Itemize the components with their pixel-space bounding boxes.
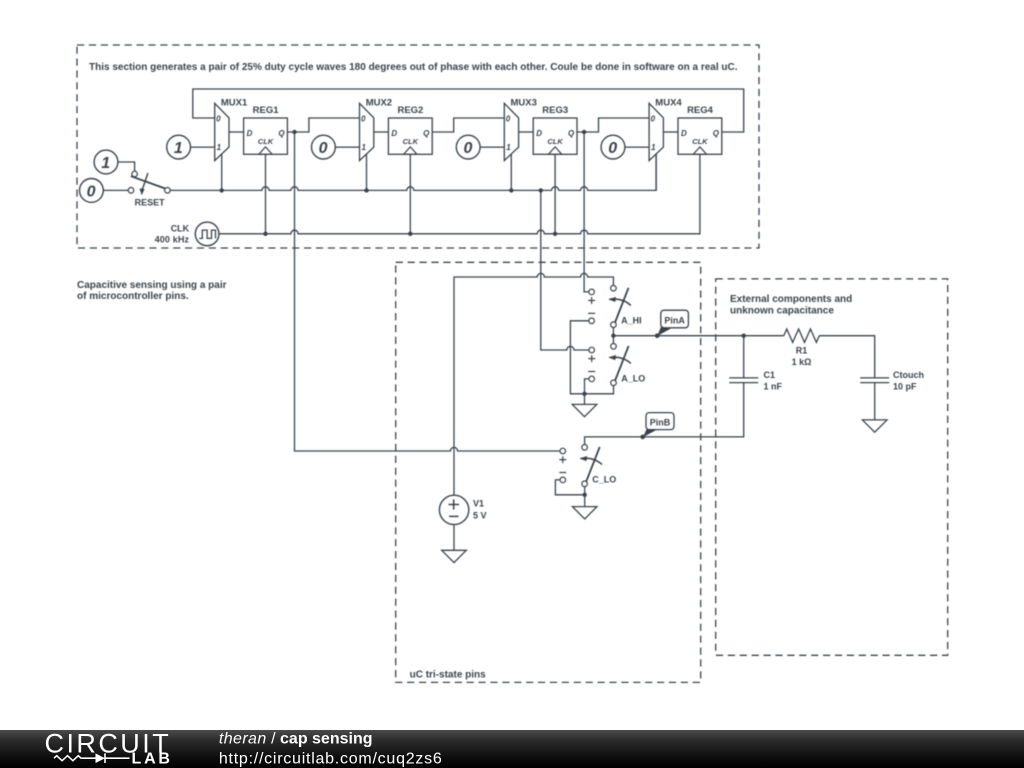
- node PinA junction: [611, 334, 615, 338]
- switch C_LO: [559, 445, 616, 487]
- node constant 1 input circle: [167, 135, 191, 159]
- wire R1 to Ctouch: [819, 336, 874, 378]
- logo resistor zigzag: [54, 756, 96, 761]
- junction A ground node: [582, 392, 586, 396]
- junction on clock line: [408, 232, 412, 236]
- wire C1 bottom / PinB line to C_LO throw: [585, 383, 744, 445]
- ground (V1): [442, 550, 467, 562]
- wire REG3 clock stub: [554, 154, 556, 234]
- wire REG2 Q to MUX3 input 0: [432, 118, 504, 132]
- switch RESET: [128, 171, 170, 207]
- wire feedback REG4 Q to MUX1 input 0: [193, 89, 744, 132]
- wire REG1 Q to MUX2 input 0: [287, 118, 359, 132]
- section box: uC tri-state pins: [396, 262, 701, 682]
- node constant 0 circle (reset side): [80, 179, 104, 203]
- wire input circle to MUX4: [625, 146, 649, 148]
- switch A_LO: [588, 344, 645, 386]
- ground (Ctouch): [862, 420, 887, 432]
- wire C_LO - control to common ground node: [555, 480, 584, 495]
- wire MUX3 select to reset line: [510, 154, 512, 190]
- flag PinA: [655, 310, 688, 338]
- node constant 1 circle (reset side): [94, 150, 118, 174]
- mux MUX4: [649, 97, 682, 160]
- junction PinA flag: [655, 334, 659, 338]
- wire REG1 Q down to C_LO + control: [295, 132, 561, 451]
- wire V1 - to ground: [453, 525, 455, 551]
- section box: waveform generator: [77, 45, 759, 248]
- section box: external components: [716, 279, 948, 655]
- mux MUX1: [215, 97, 248, 160]
- capacitor Ctouch 10 pF: [860, 370, 924, 392]
- svg-text:theran / cap sensing: theran / cap sensing: [219, 731, 373, 748]
- junction on clock line: [263, 232, 267, 236]
- wire MUX4 out to REG4 D: [663, 131, 678, 133]
- wire 1-circle to RESET throw: [118, 162, 135, 171]
- flip-flop REG1: [244, 105, 288, 154]
- svg-text:http://circuitlab.com/cuq2zs6: http://circuitlab.com/cuq2zs6: [219, 751, 443, 768]
- mux MUX3: [504, 97, 537, 160]
- clock source CLK 400 kHz: [155, 222, 219, 246]
- wire clock line: [219, 154, 700, 234]
- resistor R1 1 kOhm: [784, 329, 820, 367]
- capacitor C1 1 nF: [729, 336, 782, 392]
- flip-flop REG2: [388, 105, 432, 154]
- wire MUX1 out to REG1 D: [229, 131, 244, 133]
- switch A_HI: [588, 285, 642, 327]
- junction on reset line: [220, 188, 224, 192]
- wire REG1 clock stub: [265, 154, 267, 234]
- junction on reset line: [509, 188, 513, 192]
- node REG3 Q junction: [582, 130, 586, 134]
- junction on clock line: [553, 232, 557, 236]
- ground (A switches): [572, 394, 597, 417]
- wire A_LO - control to ground node: [585, 379, 590, 394]
- wire A_HI - control to A_LO common / ground node: [570, 321, 613, 394]
- wire MUX2 select to reset line: [366, 154, 368, 190]
- junction on reset line: [364, 188, 368, 192]
- wire input circle to MUX2: [335, 146, 359, 148]
- node C1 top junction: [742, 334, 746, 338]
- junction on reset line: [539, 188, 543, 192]
- svg-text:LAB: LAB: [132, 751, 173, 768]
- wire A_HI common to A_LO throw: [612, 327, 614, 343]
- voltage source V1 5 V: [439, 495, 486, 524]
- junction C ground node: [583, 493, 587, 497]
- ground (C_LO): [572, 495, 597, 519]
- node constant 0 input circle: [601, 135, 625, 159]
- wire 0-circle to RESET throw: [103, 189, 128, 191]
- wire reset line: [170, 154, 656, 190]
- wire REG3 Q to MUX4 input 0: [577, 118, 649, 132]
- wire MUX4 select to reset line: [655, 154, 657, 190]
- wire MUX3 out to REG3 D: [519, 131, 534, 133]
- wire V1 + up to A_HI throw: [454, 273, 613, 495]
- wire REG3 Q down to A_HI + control: [584, 132, 589, 292]
- wire REG2 clock stub: [409, 154, 411, 234]
- node REG1 Q junction: [292, 130, 296, 134]
- flip-flop REG3: [533, 105, 577, 154]
- wire MUX1 select to reset line: [221, 154, 223, 190]
- wire PinA node to R1: [613, 335, 783, 337]
- junction PinB flag: [641, 435, 645, 439]
- flag PinB: [640, 413, 674, 440]
- flip-flop REG4: [678, 105, 722, 154]
- wire Ctouch to ground: [874, 383, 876, 420]
- wire input circle to MUX1: [191, 146, 215, 148]
- mux MUX2: [360, 97, 393, 160]
- node constant 0 input circle: [312, 135, 336, 159]
- logo diode: [96, 753, 106, 763]
- wire reset line down to A_LO + control: [541, 190, 589, 350]
- wire MUX2 out to REG2 D: [374, 131, 389, 133]
- node constant 0 input circle: [456, 135, 480, 159]
- wire input circle to MUX3: [480, 146, 504, 148]
